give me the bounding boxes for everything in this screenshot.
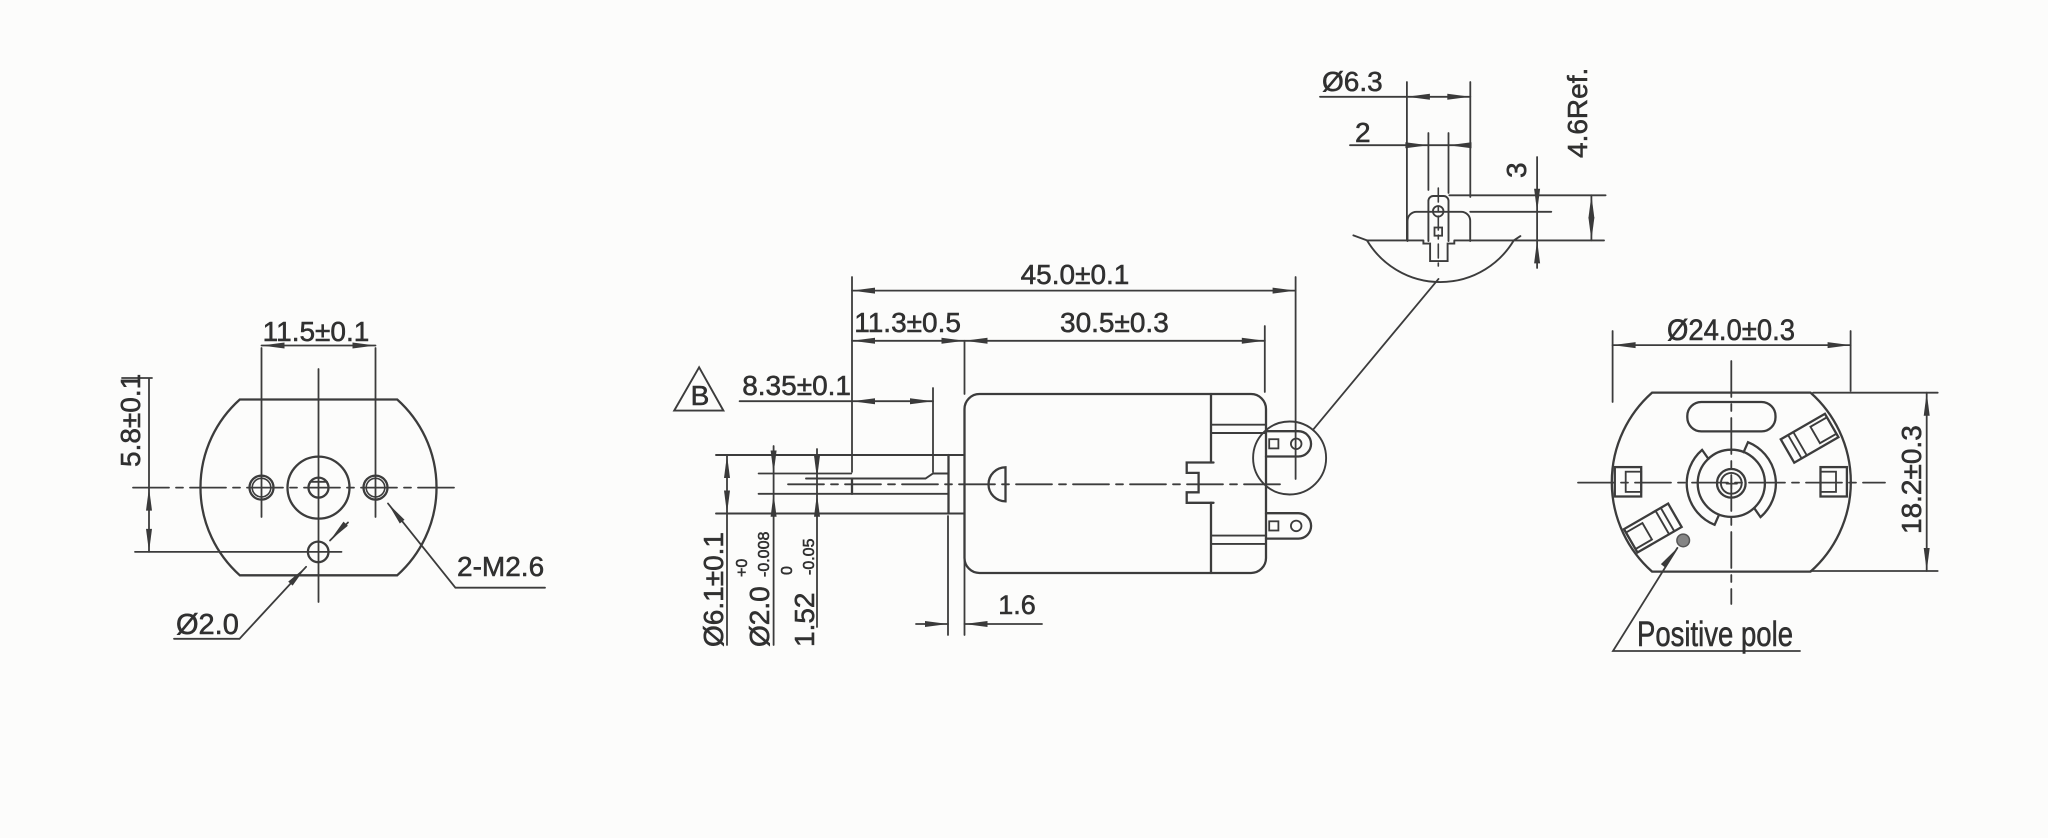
bearing boss circle	[288, 457, 350, 519]
end cap top lines	[1211, 425, 1266, 433]
mounting hole left M2.6	[250, 476, 274, 500]
shaft top extension stub	[759, 473, 852, 475]
dimension 30.5 line	[965, 340, 1265, 342]
lower hole extension line	[135, 551, 342, 553]
extension lines 1.6	[948, 516, 965, 635]
extension line tab top	[1449, 194, 1605, 196]
motor front outline	[200, 400, 436, 576]
bearing boss circle	[1698, 450, 1765, 517]
cap edge stubs	[1353, 235, 1520, 240]
svg-text:11.5±0.1: 11.5±0.1	[263, 316, 370, 347]
svg-text:2: 2	[1355, 117, 1371, 148]
side tab right	[1821, 467, 1847, 496]
dimension 3 line	[1536, 157, 1538, 268]
extension line body rear	[1264, 326, 1266, 392]
shaft tip edge	[851, 479, 853, 494]
dimension 24.0 line	[1613, 344, 1851, 346]
svg-text:0: 0	[779, 566, 796, 575]
dimension text 2.0 shaft (rotated)	[734, 532, 775, 647]
bearing boss bottom line	[716, 513, 965, 515]
extension line dome top	[1470, 211, 1551, 213]
svg-text:1.52: 1.52	[789, 593, 820, 648]
dimension 8.35 line	[740, 400, 933, 402]
end cap bottom lines	[1211, 536, 1266, 544]
horizontal centerline	[133, 487, 457, 489]
extension line dome right	[1469, 82, 1471, 197]
cap surface line	[1367, 239, 1604, 241]
vent slot	[1687, 402, 1775, 431]
shaft flat chord	[310, 481, 327, 483]
dimension 11.3 line	[852, 340, 965, 342]
svg-text:11.3±0.5: 11.3±0.5	[854, 307, 961, 338]
bearing circle	[1717, 469, 1746, 498]
terminal tab	[1428, 196, 1448, 241]
cap body arc	[1367, 240, 1514, 282]
rear outline	[1612, 393, 1851, 572]
motor body outline	[965, 394, 1267, 573]
leader balloon to detail	[1313, 279, 1439, 430]
svg-text:8.35±0.1: 8.35±0.1	[742, 370, 851, 401]
svg-text:Ø6.3: Ø6.3	[1322, 66, 1383, 97]
extension line body front	[964, 341, 966, 394]
dimension 2 line	[1350, 144, 1464, 146]
extension line left hole	[261, 348, 263, 517]
brush box upper-right	[1781, 414, 1839, 463]
end cap seam	[1210, 394, 1212, 573]
bearing boss top line	[716, 454, 965, 456]
extension line shaft tip	[851, 277, 853, 472]
dimension 1.6 line	[916, 623, 1042, 625]
extension lines 18.2	[1811, 393, 1938, 571]
shaft flat line	[806, 474, 949, 479]
svg-text:18.2±0.3: 18.2±0.3	[1896, 425, 1927, 534]
svg-text:4.6Ref.: 4.6Ref.	[1562, 68, 1593, 158]
svg-text:Positive pole: Positive pole	[1637, 615, 1793, 654]
terminal base dome	[1408, 212, 1471, 241]
shaft center mark	[1727, 478, 1738, 489]
dimension 6.1 line	[726, 455, 728, 645]
positive pole dot	[1677, 534, 1690, 547]
side tab left	[1615, 467, 1641, 496]
bearing boss left edge	[947, 455, 949, 514]
dimension text 1.52 (rotated)	[779, 538, 820, 647]
tab round hole	[1433, 206, 1444, 217]
svg-text:3: 3	[1501, 162, 1532, 178]
svg-text:Ø2.0: Ø2.0	[744, 586, 775, 647]
svg-text:2-M2.6: 2-M2.6	[457, 551, 544, 582]
horizontal centerline	[1578, 482, 1885, 484]
leader for hole 2.0	[174, 567, 306, 639]
extension line flat end	[932, 388, 934, 472]
lower hole 2.0	[308, 542, 329, 563]
svg-text:B: B	[691, 380, 710, 411]
svg-text:Ø6.1±0.1: Ø6.1±0.1	[698, 532, 729, 647]
vertical centerline	[318, 369, 320, 602]
extension line dome left	[1406, 82, 1408, 240]
dimension 2.0 shaft line	[773, 446, 775, 645]
retainer arc left	[1687, 450, 1719, 525]
svg-text:5.8±0.1: 5.8±0.1	[115, 374, 146, 467]
leader for 2-M2.6	[388, 504, 545, 588]
svg-text:-0.008: -0.008	[756, 532, 773, 577]
tab centerline	[1437, 188, 1439, 266]
leader positive pole	[1613, 548, 1800, 651]
extension line motor rear	[1295, 277, 1297, 479]
retainer arc right	[1744, 442, 1776, 517]
brush box lower-left	[1624, 504, 1682, 553]
detail balloon circle	[1253, 422, 1326, 495]
svg-text:45.0±0.1: 45.0±0.1	[1021, 259, 1130, 290]
dimension 1.52 line	[816, 449, 818, 627]
dimension 18.2 line	[1926, 393, 1928, 571]
shaft hole	[309, 478, 329, 498]
internal half-disc	[989, 467, 1006, 501]
extension lines tab width	[1428, 133, 1448, 193]
svg-text:1.6: 1.6	[998, 590, 1036, 620]
dimension 6.3 line	[1320, 96, 1470, 98]
axis centerline	[788, 483, 1285, 485]
terminal flare	[1423, 241, 1454, 261]
svg-text:Ø2.0: Ø2.0	[176, 609, 239, 641]
svg-text:+0: +0	[734, 559, 751, 577]
dimension 45.0 line	[852, 290, 1296, 292]
brush notches	[1187, 463, 1214, 503]
dimension 11.5 line	[262, 345, 376, 347]
shaft bottom line	[759, 493, 949, 495]
extension line rear left	[1612, 331, 1614, 402]
svg-text:Ø24.0±0.3: Ø24.0±0.3	[1667, 314, 1795, 347]
terminal top	[1266, 431, 1311, 456]
tab square hole	[1435, 228, 1443, 236]
shaft end circle	[1721, 473, 1742, 494]
vertical centerline	[1730, 361, 1732, 604]
dimension 4.6 line	[1590, 195, 1592, 240]
second arrow on hole 2.0	[330, 523, 348, 541]
terminal bottom	[1266, 513, 1311, 538]
dimension 5.8 line	[122, 378, 152, 552]
datum target B triangle	[674, 367, 723, 410]
mounting hole right M2.6	[364, 476, 388, 500]
svg-text:-0.05: -0.05	[801, 538, 818, 575]
extension line right hole	[375, 348, 377, 517]
extension line rear right	[1850, 331, 1852, 391]
svg-text:30.5±0.3: 30.5±0.3	[1060, 307, 1169, 338]
